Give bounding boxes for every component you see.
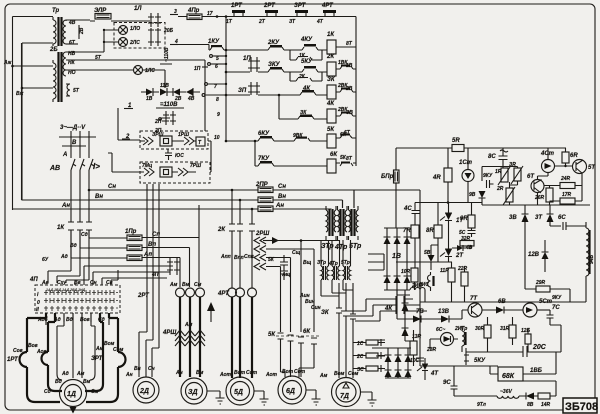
varistor cluster bottom rail bbox=[482, 204, 590, 206]
rung 2 bbox=[226, 69, 356, 72]
svg-text:Вщ: Вщ bbox=[303, 260, 312, 266]
svg-text:2К: 2К bbox=[217, 227, 226, 233]
svg-text:Ап: Ап bbox=[143, 252, 152, 258]
transformer Тр secondary winding bbox=[63, 20, 66, 44]
diode bridge 1В bottom row bbox=[384, 276, 411, 283]
svg-text:10R: 10R bbox=[401, 269, 411, 275]
diode 15В bbox=[402, 328, 409, 336]
rung 4 bbox=[279, 95, 356, 119]
svg-text:4Тр: 4Тр bbox=[334, 244, 348, 251]
svg-text:2В: 2В bbox=[79, 27, 85, 35]
plug 4РШ chevrons bbox=[175, 330, 205, 346]
wire sec tap 70 bbox=[66, 69, 133, 71]
svg-text:4К: 4К bbox=[326, 101, 335, 107]
svg-text:Вж: Вж bbox=[16, 91, 24, 97]
svg-text:22R: 22R bbox=[457, 266, 468, 272]
svg-text:1РШ: 1РШ bbox=[178, 132, 189, 138]
svg-text:7РШ: 7РШ bbox=[190, 163, 201, 169]
wire box1 left feed bbox=[118, 108, 140, 140]
svg-text:АВ: АВ bbox=[49, 165, 60, 172]
transformer 2Б secondary winding upper bbox=[63, 52, 66, 76]
svg-text:ЗП: ЗП bbox=[238, 88, 247, 94]
transformer 2Б primary winding bbox=[53, 60, 56, 102]
svg-text:Ав: Ав bbox=[41, 280, 49, 286]
svg-text:3В: 3В bbox=[509, 215, 517, 221]
svg-text:6Т: 6Т bbox=[69, 40, 76, 46]
svg-text:2РТ: 2РТ bbox=[263, 3, 276, 9]
loop 1Д outer bbox=[20, 313, 126, 402]
wire electronics top rail bbox=[396, 147, 566, 149]
svg-text:1ЛО: 1ЛО bbox=[130, 26, 140, 32]
plug box 1РШ dashed bbox=[140, 131, 208, 149]
wire 68К row bbox=[420, 345, 498, 366]
svg-text:ЗК: ЗК bbox=[321, 310, 330, 316]
svg-text:4Ст: 4Ст bbox=[540, 151, 555, 157]
svg-text:1С: 1С bbox=[357, 341, 364, 347]
loop 1Д inner bbox=[42, 313, 104, 391]
svg-text:5Т: 5Т bbox=[73, 88, 80, 94]
label box ЗБ708 bbox=[563, 398, 597, 413]
svg-text:ЗТ: ЗТ bbox=[289, 19, 296, 25]
bridge2 feed bbox=[368, 340, 385, 356]
wire mid rail bbox=[415, 202, 482, 204]
svg-text:ЗРТ: ЗРТ bbox=[294, 3, 307, 9]
svg-text:Ан: Ан bbox=[61, 203, 70, 209]
stub 6 bbox=[208, 63, 211, 66]
svg-text:28R: 28R bbox=[426, 347, 437, 353]
svg-text:7В: 7В bbox=[416, 309, 424, 315]
lamp 1ЛО bbox=[119, 26, 128, 35]
wire phase B vertical bbox=[57, 131, 80, 283]
svg-text:4Пр: 4Пр bbox=[187, 8, 200, 14]
wire phase C vertical bbox=[66, 131, 89, 283]
svg-text:Сн: Сн bbox=[108, 184, 116, 190]
wire Сщ vertical bbox=[300, 241, 302, 333]
svg-text:5R: 5R bbox=[452, 138, 460, 144]
switch 4П dashed box bbox=[35, 285, 120, 313]
svg-text:Св: Св bbox=[106, 280, 113, 286]
node 1а bbox=[159, 118, 162, 121]
svg-text:24R: 24R bbox=[560, 176, 571, 182]
svg-text:4РШ: 4РШ bbox=[162, 330, 176, 336]
svg-text:2ИТр: 2ИТр bbox=[454, 326, 467, 332]
svg-text:6: 6 bbox=[215, 64, 218, 70]
svg-text:Вп: Вп bbox=[148, 242, 156, 248]
svg-text:Сд: Сд bbox=[44, 389, 51, 395]
svg-text:Вд: Вд bbox=[55, 379, 62, 385]
wire electronics left rail bbox=[419, 190, 421, 345]
svg-text:Вом: Вом bbox=[334, 371, 345, 377]
svg-text:Син: Син bbox=[311, 305, 321, 311]
wire 2Д feeds bbox=[139, 184, 159, 377]
svg-text:1Ст: 1Ст bbox=[459, 160, 473, 166]
svg-text:Сху: Сху bbox=[57, 280, 66, 286]
svg-text:2К: 2К bbox=[326, 54, 335, 60]
motor 5Д bbox=[226, 377, 254, 405]
svg-text:2В: 2В bbox=[345, 86, 353, 92]
svg-text:А: А bbox=[62, 152, 67, 158]
bus Ан after fuse bbox=[273, 208, 331, 210]
transformer 2Б secondary winding lower bbox=[66, 84, 70, 96]
ground 7Д bbox=[361, 392, 377, 406]
bus Сн after fuse bbox=[273, 190, 420, 208]
left column diode 14В bbox=[402, 303, 409, 311]
svg-text:3~—Д··V: 3~—Д··V bbox=[60, 125, 86, 131]
svg-text:4В: 4В bbox=[68, 20, 76, 26]
svg-text:31R: 31R bbox=[500, 326, 510, 332]
svg-text:2Д: 2Д bbox=[139, 388, 149, 395]
svg-text:1РТ: 1РТ bbox=[231, 3, 243, 9]
svg-text:1ЛС: 1ЛС bbox=[145, 68, 155, 74]
svg-text:БПр: БПр bbox=[381, 174, 394, 180]
wire sec tap 52 bbox=[66, 51, 104, 53]
svg-text:4Т: 4Т bbox=[430, 371, 439, 377]
wire 1Д direct feeds bbox=[73, 313, 82, 378]
plug 2РШ pin 3 bbox=[254, 254, 291, 332]
svg-text:Сщ: Сщ bbox=[292, 250, 301, 256]
svg-text:1ВБ: 1ВБ bbox=[530, 368, 543, 374]
motor ЗД bbox=[181, 378, 207, 404]
svg-text:1В: 1В bbox=[146, 96, 153, 102]
svg-text:Аот: Аот bbox=[265, 372, 278, 378]
wire Сп out bbox=[142, 205, 199, 287]
plug arrows right bbox=[172, 137, 196, 145]
svg-text:20С: 20С bbox=[532, 344, 547, 351]
svg-text:Ам: Ам bbox=[319, 373, 328, 379]
lamp box dashed bbox=[114, 23, 165, 49]
svg-text:1РТ: 1РТ bbox=[7, 357, 19, 363]
wire 6Д verticals lower bbox=[281, 339, 315, 377]
diode 2В bbox=[160, 89, 167, 96]
wire ЭЛР to lamps bbox=[90, 20, 150, 22]
svg-text:~36V: ~36V bbox=[500, 389, 512, 395]
wire row1 to row2 bbox=[321, 240, 351, 266]
svg-text:4В: 4В bbox=[187, 96, 195, 102]
svg-text:1Л: 1Л bbox=[134, 6, 142, 12]
svg-text:Вот: Вот bbox=[282, 369, 294, 375]
ground 5Д bbox=[254, 391, 269, 405]
svg-text:9С: 9С bbox=[443, 380, 451, 386]
svg-text:2Т: 2Т bbox=[455, 253, 464, 259]
wire 2К down bbox=[232, 231, 252, 288]
svg-text:2РТ: 2РТ bbox=[137, 293, 150, 299]
transformer Тр core bbox=[59, 17, 62, 46]
diode 1В bbox=[146, 89, 153, 96]
svg-text:1В: 1В bbox=[392, 253, 401, 260]
relay 1РУ box bbox=[160, 136, 172, 146]
svg-text:ЗК: ЗК bbox=[327, 77, 336, 83]
relay 2РТ heaters bbox=[176, 288, 185, 297]
svg-text:ЗД: ЗД bbox=[188, 389, 198, 396]
wire Вп out bbox=[142, 248, 190, 288]
svg-text:Аот: Аот bbox=[219, 372, 232, 378]
svg-text:1П: 1П bbox=[194, 66, 201, 72]
wire bottom right bbox=[454, 381, 556, 396]
wire top feed to Tr1 bbox=[13, 16, 54, 18]
svg-text:4С: 4С bbox=[403, 206, 412, 212]
svg-text:2С: 2С bbox=[356, 354, 364, 360]
arrow marker bbox=[210, 310, 212, 322]
svg-text:НО: НО bbox=[68, 70, 76, 76]
svg-text:9В: 9В bbox=[469, 192, 476, 198]
bus Вн after fuse bbox=[273, 200, 343, 208]
svg-text:7Мц: 7Мц bbox=[142, 163, 152, 169]
loop 1Д inner2 bbox=[57, 313, 95, 380]
svg-text:Вм: Вм bbox=[182, 282, 190, 288]
svg-text:5Тр: 5Тр bbox=[341, 260, 350, 266]
wire phase A vertical bbox=[48, 131, 71, 283]
svg-text:Вот: Вот bbox=[234, 370, 246, 376]
svg-text:Ан: Ан bbox=[175, 370, 183, 376]
wire feed to Tr1 bottom bbox=[22, 42, 53, 44]
svg-text:4R: 4R bbox=[432, 175, 441, 181]
svg-text:26R: 26R bbox=[534, 195, 545, 201]
svg-text:17R: 17R bbox=[562, 192, 572, 198]
svg-text:Сом: Сом bbox=[348, 371, 359, 377]
transformer row2 windings bbox=[321, 266, 351, 280]
svg-text:8Т: 8Т bbox=[346, 41, 353, 47]
wire Tr1 sec top bbox=[66, 20, 90, 21]
lamp 2ЛС bbox=[119, 38, 128, 47]
svg-text:5Д: 5Д bbox=[234, 389, 243, 396]
svg-text:7Д: 7Д bbox=[340, 393, 349, 400]
svg-text:Ад: Ад bbox=[61, 371, 69, 377]
wire left rail 1 bbox=[12, 17, 14, 211]
svg-text:Ад: Ад bbox=[60, 254, 68, 260]
svg-text:Сд: Сд bbox=[81, 232, 88, 238]
svg-text:9Тл: 9Тл bbox=[477, 402, 487, 408]
svg-text:4П: 4П bbox=[151, 272, 159, 278]
svg-text:17: 17 bbox=[207, 11, 213, 17]
lamp feeder bbox=[104, 30, 118, 52]
svg-text:Сн: Сн bbox=[278, 184, 286, 190]
node Ап drop bbox=[231, 190, 233, 224]
svg-text:1КУ: 1КУ bbox=[208, 39, 220, 45]
svg-text:Сн: Сн bbox=[90, 280, 97, 286]
plug arrows right 2 bbox=[172, 168, 196, 176]
wire row2 outputs bbox=[321, 280, 353, 296]
svg-text:30R: 30R bbox=[475, 326, 485, 332]
diode 4В bbox=[186, 89, 193, 96]
diode bridge 4Т top rail bbox=[385, 348, 411, 378]
contact 2К bypass bbox=[290, 72, 322, 81]
plug 2РШ pin 4 bbox=[254, 263, 281, 332]
rung 6 bbox=[255, 141, 356, 166]
transformer Тр primary winding bbox=[53, 17, 56, 46]
svg-text:20Б: 20Б bbox=[163, 28, 174, 34]
svg-text:29R: 29R bbox=[535, 280, 546, 286]
svg-text:2П: 2П bbox=[154, 119, 162, 125]
ground ЗД bbox=[207, 391, 225, 404]
svg-text:7С: 7С bbox=[552, 305, 560, 311]
svg-text:Тр: Тр bbox=[52, 8, 60, 14]
svg-text:Апп: Апп bbox=[220, 254, 231, 260]
svg-text:5КУ: 5КУ bbox=[474, 358, 486, 364]
svg-text:4Т: 4Т bbox=[316, 19, 324, 25]
svg-text:НК: НК bbox=[68, 60, 76, 66]
svg-text:Вн: Вн bbox=[278, 194, 286, 200]
motor 6Д bbox=[278, 376, 306, 404]
svg-text:ЮС: ЮС bbox=[175, 153, 184, 159]
motor 1Д arrow bbox=[72, 407, 74, 412]
transformer ЗТр row1 bbox=[331, 190, 354, 209]
svg-text:1В: 1В bbox=[346, 63, 353, 69]
svg-text:Ам: Ам bbox=[95, 346, 104, 352]
plug arrows left bbox=[140, 137, 153, 145]
wire БПр vertical bbox=[395, 148, 397, 228]
svg-text:4РТ: 4РТ bbox=[321, 3, 334, 9]
svg-text:6С~: 6С~ bbox=[436, 327, 445, 333]
relay 4РТ heaters bbox=[228, 288, 237, 297]
wire LED row bbox=[430, 339, 458, 348]
wire primary taps bbox=[13, 66, 54, 88]
svg-text:Вн: Вн bbox=[134, 366, 141, 372]
svg-text:6Т: 6Т bbox=[344, 130, 351, 136]
svg-text:Сом: Сом bbox=[113, 347, 124, 353]
svg-text:Впп: Впп bbox=[234, 255, 244, 261]
diode 3В bbox=[173, 89, 180, 96]
switch top wires bbox=[68, 270, 118, 285]
plug arrows left 2 bbox=[140, 168, 154, 176]
svg-text:2Т: 2Т bbox=[258, 19, 266, 25]
rung 1 bbox=[178, 45, 356, 51]
wire ladder top rail bbox=[202, 16, 356, 18]
svg-text:9КУ: 9КУ bbox=[483, 173, 493, 179]
svg-text:Ан: Ан bbox=[275, 203, 284, 209]
svg-text:32R: 32R bbox=[461, 236, 471, 242]
svg-text:Сов: Сов bbox=[13, 348, 23, 354]
svg-text:Вд: Вд bbox=[70, 243, 77, 249]
svg-text:6R: 6R bbox=[570, 153, 578, 159]
svg-text:В: В bbox=[72, 140, 77, 146]
svg-text:8В: 8В bbox=[527, 402, 534, 408]
svg-text:Сот: Сот bbox=[246, 370, 258, 376]
svg-text:6С: 6С bbox=[558, 215, 566, 221]
lamp 1ЛС bbox=[134, 66, 143, 75]
wire 7Д feeds bbox=[339, 283, 353, 378]
svg-text:5Ст: 5Ст bbox=[539, 299, 553, 305]
svg-text:10: 10 bbox=[214, 135, 220, 141]
svg-text:9: 9 bbox=[217, 112, 220, 118]
svg-text:6В: 6В bbox=[498, 299, 506, 305]
svg-text:68К: 68К bbox=[502, 373, 515, 380]
svg-text:12Б: 12Б bbox=[521, 328, 531, 334]
svg-text:Сн: Сн bbox=[148, 366, 155, 372]
svg-text:Ан: Ан bbox=[125, 372, 133, 378]
svg-text:Аж: Аж bbox=[3, 60, 12, 66]
motor 2Д bbox=[133, 377, 159, 403]
stub 5 bbox=[210, 55, 213, 58]
svg-text:ЗR: ЗR bbox=[509, 162, 516, 168]
svg-text:ЗВ: ЗВ bbox=[346, 110, 353, 116]
svg-text:~110В: ~110В bbox=[164, 47, 170, 62]
svg-text:Ащ: Ащ bbox=[281, 272, 291, 278]
wire 4Пр feed bbox=[160, 17, 187, 65]
svg-text:5КУ: 5КУ bbox=[301, 59, 313, 65]
svg-text:9R: 9R bbox=[460, 216, 468, 222]
capacitor ЮС bbox=[165, 149, 172, 160]
svg-text:Сот: Сот bbox=[294, 369, 306, 375]
svg-text:8Т: 8Т bbox=[346, 156, 353, 162]
svg-text:Вд: Вд bbox=[66, 317, 73, 323]
svg-text:См: См bbox=[91, 389, 99, 395]
svg-text:6Д: 6Д bbox=[286, 388, 295, 395]
rung 3 bbox=[205, 92, 356, 95]
rung 5 bbox=[226, 138, 356, 141]
svg-text:Спп: Спп bbox=[244, 254, 254, 260]
svg-text:1Пр: 1Пр bbox=[125, 229, 137, 235]
switch 4П contact grid bbox=[46, 290, 114, 295]
svg-text:4П: 4П bbox=[29, 277, 38, 283]
wire ladder left rail bbox=[225, 17, 227, 142]
svg-text:1Д: 1Д bbox=[67, 391, 76, 398]
diode bridge 1В top row bbox=[384, 228, 410, 290]
svg-text:7R: 7R bbox=[403, 228, 411, 234]
switch bottom wires bbox=[46, 313, 109, 325]
svg-text:Ам: Ам bbox=[169, 282, 178, 288]
svg-text:5: 5 bbox=[216, 56, 219, 62]
svg-text:Ам: Ам bbox=[184, 322, 193, 328]
svg-text:6У: 6У bbox=[42, 257, 49, 263]
ground 6Д bbox=[306, 390, 321, 405]
svg-text:I>: I> bbox=[93, 162, 100, 171]
wire bridge1 to 7В row bbox=[397, 290, 413, 319]
svg-text:Вм: Вм bbox=[196, 370, 204, 376]
plug 2РШ pin 2 bbox=[254, 246, 314, 333]
wire low rail bbox=[396, 262, 452, 268]
stub 7 bbox=[205, 83, 208, 86]
svg-text:0: 0 bbox=[37, 300, 40, 306]
wire ladder right rail bbox=[355, 17, 357, 167]
svg-text:5Т: 5Т bbox=[95, 55, 102, 61]
bridge2 diodes row2 bbox=[385, 370, 412, 377]
bridge feed wires bbox=[368, 254, 384, 270]
svg-text:ЗРТ: ЗРТ bbox=[91, 356, 104, 362]
svg-text:14R: 14R bbox=[541, 402, 551, 408]
motor 1Д bbox=[60, 380, 87, 407]
svg-text:8С: 8С bbox=[488, 154, 496, 160]
svg-text:12В: 12В bbox=[528, 252, 540, 258]
wire left rail 2 bbox=[21, 43, 23, 200]
pin bracket 2В bbox=[78, 25, 80, 39]
svg-text:7: 7 bbox=[214, 84, 217, 90]
svg-text:Аов: Аов bbox=[36, 349, 47, 355]
wire 1ЛС right bbox=[143, 70, 166, 88]
wire box2 left feed bbox=[108, 141, 211, 172]
bridge2 diodes row1 bbox=[385, 355, 412, 362]
box Т bbox=[196, 137, 205, 146]
svg-text:8R: 8R bbox=[426, 228, 434, 234]
svg-text:См: См bbox=[194, 282, 202, 288]
svg-text:4КУ: 4КУ bbox=[300, 37, 313, 43]
svg-text:2Б: 2Б bbox=[49, 47, 58, 53]
svg-text:Ам: Ам bbox=[76, 371, 85, 377]
svg-text:5К: 5К bbox=[268, 257, 275, 263]
supply terminal bars bbox=[59, 137, 96, 146]
block 68К bbox=[498, 367, 523, 381]
node Сп drop bbox=[251, 209, 253, 224]
transformer 2Б core bbox=[59, 52, 62, 102]
contact 1К bypass bbox=[290, 50, 322, 60]
svg-text:11В: 11В bbox=[160, 83, 169, 89]
wire Ап out bbox=[142, 258, 180, 288]
svg-text:Вн: Вн bbox=[95, 194, 103, 200]
contact 1Л lamp crosses bbox=[148, 28, 161, 46]
svg-text:8: 8 bbox=[216, 97, 219, 103]
svg-text:ЗБ708: ЗБ708 bbox=[565, 401, 598, 413]
node Вп drop bbox=[239, 200, 241, 224]
plug box 7РШ dashed bbox=[140, 162, 210, 183]
